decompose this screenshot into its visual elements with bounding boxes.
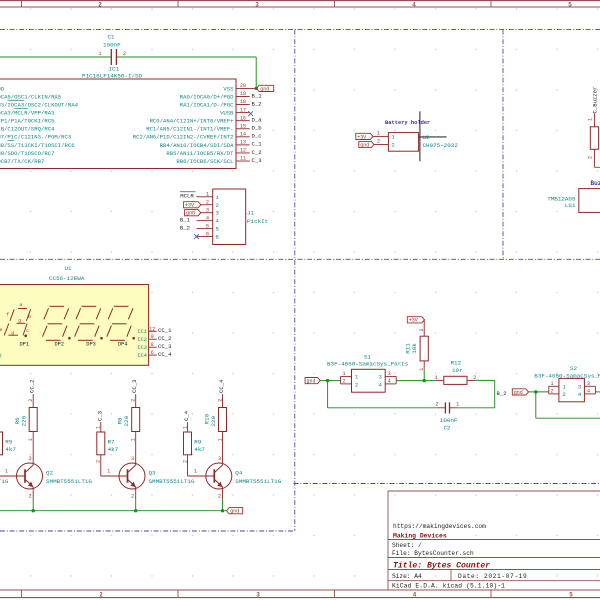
svg-text:220: 220: [210, 415, 217, 426]
svg-text:220: 220: [21, 415, 28, 426]
svg-text:D_c: D_c: [252, 133, 262, 140]
svg-text:1: 1: [194, 468, 197, 474]
svg-text:b: b: [28, 314, 31, 320]
svg-text:P1B/C12OUT/SRQ/RC4: P1B/C12OUT/SRQ/RC4: [0, 126, 55, 133]
svg-text:D_a: D_a: [252, 116, 263, 123]
svg-text:3: 3: [206, 208, 209, 214]
svg-text:IOCA5/OSC1/CLKIN/RA5: IOCA5/OSC1/CLKIN/RA5: [0, 93, 61, 100]
svg-text:CC_3: CC_3: [158, 343, 171, 350]
svg-text:gnd: gnd: [230, 509, 239, 515]
svg-text:CC1: CC1: [137, 329, 147, 335]
svg-text:RB4/AN10/IOCB4/SDI/SDA: RB4/AN10/IOCB4/SDI/SDA: [160, 142, 234, 149]
svg-text:4k7: 4k7: [108, 446, 119, 453]
svg-text:KiCad E.D.A. kicad (5.1.10)-1: KiCad E.D.A. kicad (5.1.10)-1: [392, 583, 505, 590]
svg-text:S2: S2: [570, 365, 578, 372]
svg-text:1: 1: [392, 135, 395, 141]
svg-text:File: BytesCounter.sch: File: BytesCounter.sch: [392, 550, 474, 557]
svg-text:AN7/P1C/C12IN3-/PGM/RC3: AN7/P1C/C12IN3-/PGM/RC3: [0, 134, 71, 141]
svg-text:14: 14: [240, 132, 246, 138]
svg-text:CC_3: CC_3: [131, 380, 138, 393]
svg-text:C1: C1: [108, 33, 116, 40]
svg-text:SMMBT5551LT1G: SMMBT5551LT1G: [235, 478, 281, 485]
svg-text:2: 2: [435, 402, 438, 408]
svg-text:AN8/SS/T13CKI/T1OSCI/RC6: AN8/SS/T13CKI/T1OSCI/RC6: [0, 142, 75, 149]
svg-text:B_2: B_2: [180, 224, 190, 231]
svg-text:B_1: B_1: [252, 92, 263, 99]
svg-text:2: 2: [216, 202, 219, 209]
svg-text:DP4: DP4: [118, 341, 128, 347]
svg-text:gnd: gnd: [307, 379, 316, 385]
svg-text:2: 2: [342, 378, 345, 384]
svg-text:Making Devices: Making Devices: [393, 532, 447, 539]
svg-text:2: 2: [131, 493, 134, 499]
svg-text:1: 1: [377, 131, 380, 137]
svg-text:12: 12: [149, 326, 155, 332]
svg-text:CC_4: CC_4: [218, 379, 225, 393]
svg-text:3: 3: [256, 592, 260, 599]
svg-text:gnd: gnd: [360, 142, 369, 148]
svg-text:IOCB7/TX/CK/RB7: IOCB7/TX/CK/RB7: [0, 158, 44, 165]
svg-text:Sheet: /: Sheet: /: [392, 542, 422, 549]
svg-text:2: 2: [562, 391, 565, 398]
svg-text:IC1: IC1: [109, 65, 120, 72]
svg-text:IOCA3/MCLR/VPP/RA3: IOCA3/MCLR/VPP/RA3: [0, 110, 54, 117]
svg-text:Buzzer: Buzzer: [591, 180, 600, 187]
svg-text:Q3: Q3: [149, 469, 157, 476]
svg-text:3: 3: [578, 383, 581, 390]
svg-text:R12: R12: [451, 360, 462, 367]
svg-text:C_3: C_3: [252, 157, 262, 164]
svg-text:6: 6: [206, 231, 209, 237]
svg-text:SMMBT5551LT1G: SMMBT5551LT1G: [46, 478, 92, 485]
svg-text:2: 2: [206, 200, 209, 206]
svg-text:2: 2: [355, 381, 358, 388]
svg-text:RA0/IOCA0/D+/PGD: RA0/IOCA0/D+/PGD: [180, 93, 234, 100]
svg-text:CC2: CC2: [137, 337, 147, 343]
svg-text:B3F-4050-SamacSys_Parts: B3F-4050-SamacSys_Parts: [327, 361, 409, 368]
svg-text:RC0/AN4/C12IN+/INT0/VREF+: RC0/AN4/C12IN+/INT0/VREF+: [150, 118, 235, 125]
svg-text:MCLR: MCLR: [180, 192, 194, 199]
svg-text:1: 1: [550, 381, 553, 387]
svg-text:g: g: [18, 319, 21, 324]
svg-text:gnd: gnd: [260, 86, 269, 92]
svg-text:1: 1: [587, 118, 593, 121]
svg-text:17: 17: [240, 107, 246, 113]
svg-text:1: 1: [107, 468, 110, 474]
svg-text:4: 4: [206, 215, 209, 221]
svg-text:J1: J1: [247, 210, 255, 217]
svg-text:R7: R7: [108, 439, 116, 446]
svg-text:CC3: CC3: [137, 345, 147, 351]
svg-text:1: 1: [98, 51, 101, 57]
svg-text:2: 2: [98, 1, 102, 8]
svg-text:12: 12: [240, 148, 246, 154]
svg-text:f: f: [6, 312, 9, 318]
svg-text:3: 3: [255, 1, 259, 8]
svg-text:D_b: D_b: [252, 125, 262, 132]
svg-text:18: 18: [240, 99, 246, 105]
svg-text:5: 5: [569, 592, 573, 599]
svg-text:4: 4: [388, 378, 391, 384]
svg-text:16: 16: [240, 115, 246, 121]
svg-text:C_4: C_4: [183, 410, 190, 421]
svg-text:d: d: [11, 331, 14, 337]
svg-text:2: 2: [392, 143, 395, 149]
svg-text:B_1: B_1: [180, 216, 191, 223]
svg-text:3: 3: [378, 374, 381, 381]
svg-text:RC1/AN5/C12IN1-/INT1/VREF-: RC1/AN5/C12IN1-/INT1/VREF-: [146, 126, 233, 133]
svg-text:CC4: CC4: [137, 353, 147, 359]
svg-text:1: 1: [435, 375, 438, 381]
svg-text:e: e: [0, 328, 3, 333]
svg-text:a: a: [19, 303, 22, 308]
svg-text:2: 2: [550, 388, 553, 394]
svg-text:1: 1: [206, 192, 209, 198]
svg-text:U1: U1: [65, 265, 73, 272]
svg-text:C2: C2: [444, 425, 452, 432]
svg-text:SMMBT5551LT1G: SMMBT5551LT1G: [149, 478, 195, 485]
svg-text:4: 4: [412, 1, 416, 8]
svg-text:C_Buzzer: C_Buzzer: [591, 87, 598, 114]
svg-text:AN3/IOCA3/OSC2/CLKOUT/RA4: AN3/IOCA3/OSC2/CLKOUT/RA4: [0, 101, 79, 108]
svg-text:RB5/AN11/IOCB5/RX/DT: RB5/AN11/IOCB5/RX/DT: [166, 150, 234, 157]
svg-text:2: 2: [377, 139, 380, 145]
svg-text:gnd: gnd: [514, 390, 523, 396]
svg-text:10r: 10r: [452, 367, 463, 374]
svg-text:2: 2: [99, 592, 103, 599]
svg-text:CC_1: CC_1: [158, 327, 172, 334]
svg-text:+3V: +3V: [185, 203, 194, 209]
svg-text:VSS: VSS: [223, 85, 234, 92]
svg-text:RA1/IOCA1/D-/PGC: RA1/IOCA1/D-/PGC: [180, 101, 234, 108]
svg-text:CC56-12EWA: CC56-12EWA: [49, 275, 85, 282]
svg-text:DP1: DP1: [20, 341, 30, 347]
svg-text:13: 13: [240, 140, 246, 146]
svg-text:19: 19: [240, 91, 246, 97]
svg-text:15: 15: [240, 123, 246, 129]
svg-text:3: 3: [388, 371, 391, 377]
svg-text:C_3: C_3: [96, 411, 103, 421]
svg-text:3: 3: [131, 456, 134, 462]
svg-text:CC_2: CC_2: [29, 380, 36, 393]
svg-text:LS1: LS1: [565, 202, 576, 209]
svg-text:2: 2: [218, 493, 221, 499]
svg-text:2: 2: [123, 51, 126, 57]
svg-text:R9: R9: [194, 439, 202, 446]
svg-text:2: 2: [29, 493, 32, 499]
svg-text:3: 3: [29, 456, 32, 462]
svg-text:C_2: C_2: [252, 149, 262, 156]
svg-text:8: 8: [151, 342, 154, 348]
svg-text:5: 5: [216, 226, 219, 233]
svg-text:3: 3: [218, 456, 221, 462]
svg-text:DP2: DP2: [55, 341, 65, 347]
svg-text:10k: 10k: [411, 343, 418, 354]
svg-text:11: 11: [240, 156, 246, 162]
svg-text:PIC18LF14K50-I/SO: PIC18LF14K50-I/SO: [82, 73, 143, 80]
svg-text:PickIt: PickIt: [247, 218, 268, 225]
svg-text:3: 3: [216, 210, 219, 217]
svg-text:1: 1: [342, 371, 345, 377]
svg-text:CH075-2032: CH075-2032: [423, 142, 459, 149]
svg-text:RC2/AN6/P1D/C12IN2-/CVREF/INT2: RC2/AN6/P1D/C12IN2-/CVREF/INT2: [133, 134, 234, 141]
svg-text:Date: 2021-07-19: Date: 2021-07-19: [458, 573, 527, 580]
svg-text:https://makingdevices.com: https://makingdevices.com: [393, 523, 486, 530]
svg-text:Size: A4: Size: A4: [392, 573, 422, 580]
svg-text:9: 9: [151, 334, 154, 340]
svg-text:C_1: C_1: [252, 141, 263, 148]
svg-text:4: 4: [587, 388, 590, 394]
svg-text:4: 4: [413, 592, 417, 599]
svg-text:3: 3: [587, 381, 590, 387]
svg-text:R5: R5: [5, 439, 13, 446]
svg-text:Q4: Q4: [235, 469, 243, 476]
svg-text:220: 220: [123, 415, 130, 426]
svg-text:DP3: DP3: [86, 341, 96, 347]
svg-text:2: 2: [587, 156, 593, 159]
svg-text:U2: U2: [423, 134, 431, 141]
svg-text:100nF: 100nF: [440, 417, 458, 424]
svg-text:AN9/SDO/T1OSCO/RC7: AN9/SDO/T1OSCO/RC7: [0, 150, 54, 157]
svg-text:6: 6: [216, 234, 219, 241]
svg-text:B_2: B_2: [252, 100, 262, 107]
svg-text:+3V: +3V: [357, 134, 366, 140]
svg-text:VUSB: VUSB: [220, 110, 234, 117]
svg-text:B_2: B_2: [497, 390, 507, 397]
svg-text:CCP1/P1A/T0CKI/RC5: CCP1/P1A/T0CKI/RC5: [0, 118, 54, 125]
svg-text:1: 1: [5, 468, 8, 474]
svg-text:CC_2: CC_2: [158, 335, 171, 342]
svg-text:4k7: 4k7: [194, 446, 205, 453]
svg-text:RB6/IOCB6/SCK/SCL: RB6/IOCB6/SCK/SCL: [176, 158, 233, 165]
svg-text:Battery holder: Battery holder: [385, 120, 430, 126]
svg-text:+3V: +3V: [409, 318, 418, 324]
svg-text:VDD: VDD: [0, 85, 5, 92]
svg-text:SMMBT5551LT1G: SMMBT5551LT1G: [0, 478, 9, 485]
svg-text:2: 2: [419, 328, 425, 331]
svg-text:S1: S1: [364, 353, 372, 360]
svg-text:Q2: Q2: [46, 469, 54, 476]
svg-text:CC_4: CC_4: [158, 351, 172, 358]
svg-text:6: 6: [151, 350, 154, 356]
svg-text:5: 5: [568, 1, 572, 8]
svg-text:1: 1: [456, 402, 459, 408]
svg-text:100nF: 100nF: [103, 41, 121, 48]
svg-text:B3F-4050-SamacSys_Parts: B3F-4050-SamacSys_Parts: [534, 372, 600, 379]
svg-text:5: 5: [206, 223, 209, 229]
svg-text:4k7: 4k7: [5, 446, 16, 453]
svg-text:Title: Bytes Counter: Title: Bytes Counter: [393, 561, 490, 570]
svg-text:20: 20: [240, 83, 246, 89]
svg-text:c: c: [26, 329, 29, 334]
